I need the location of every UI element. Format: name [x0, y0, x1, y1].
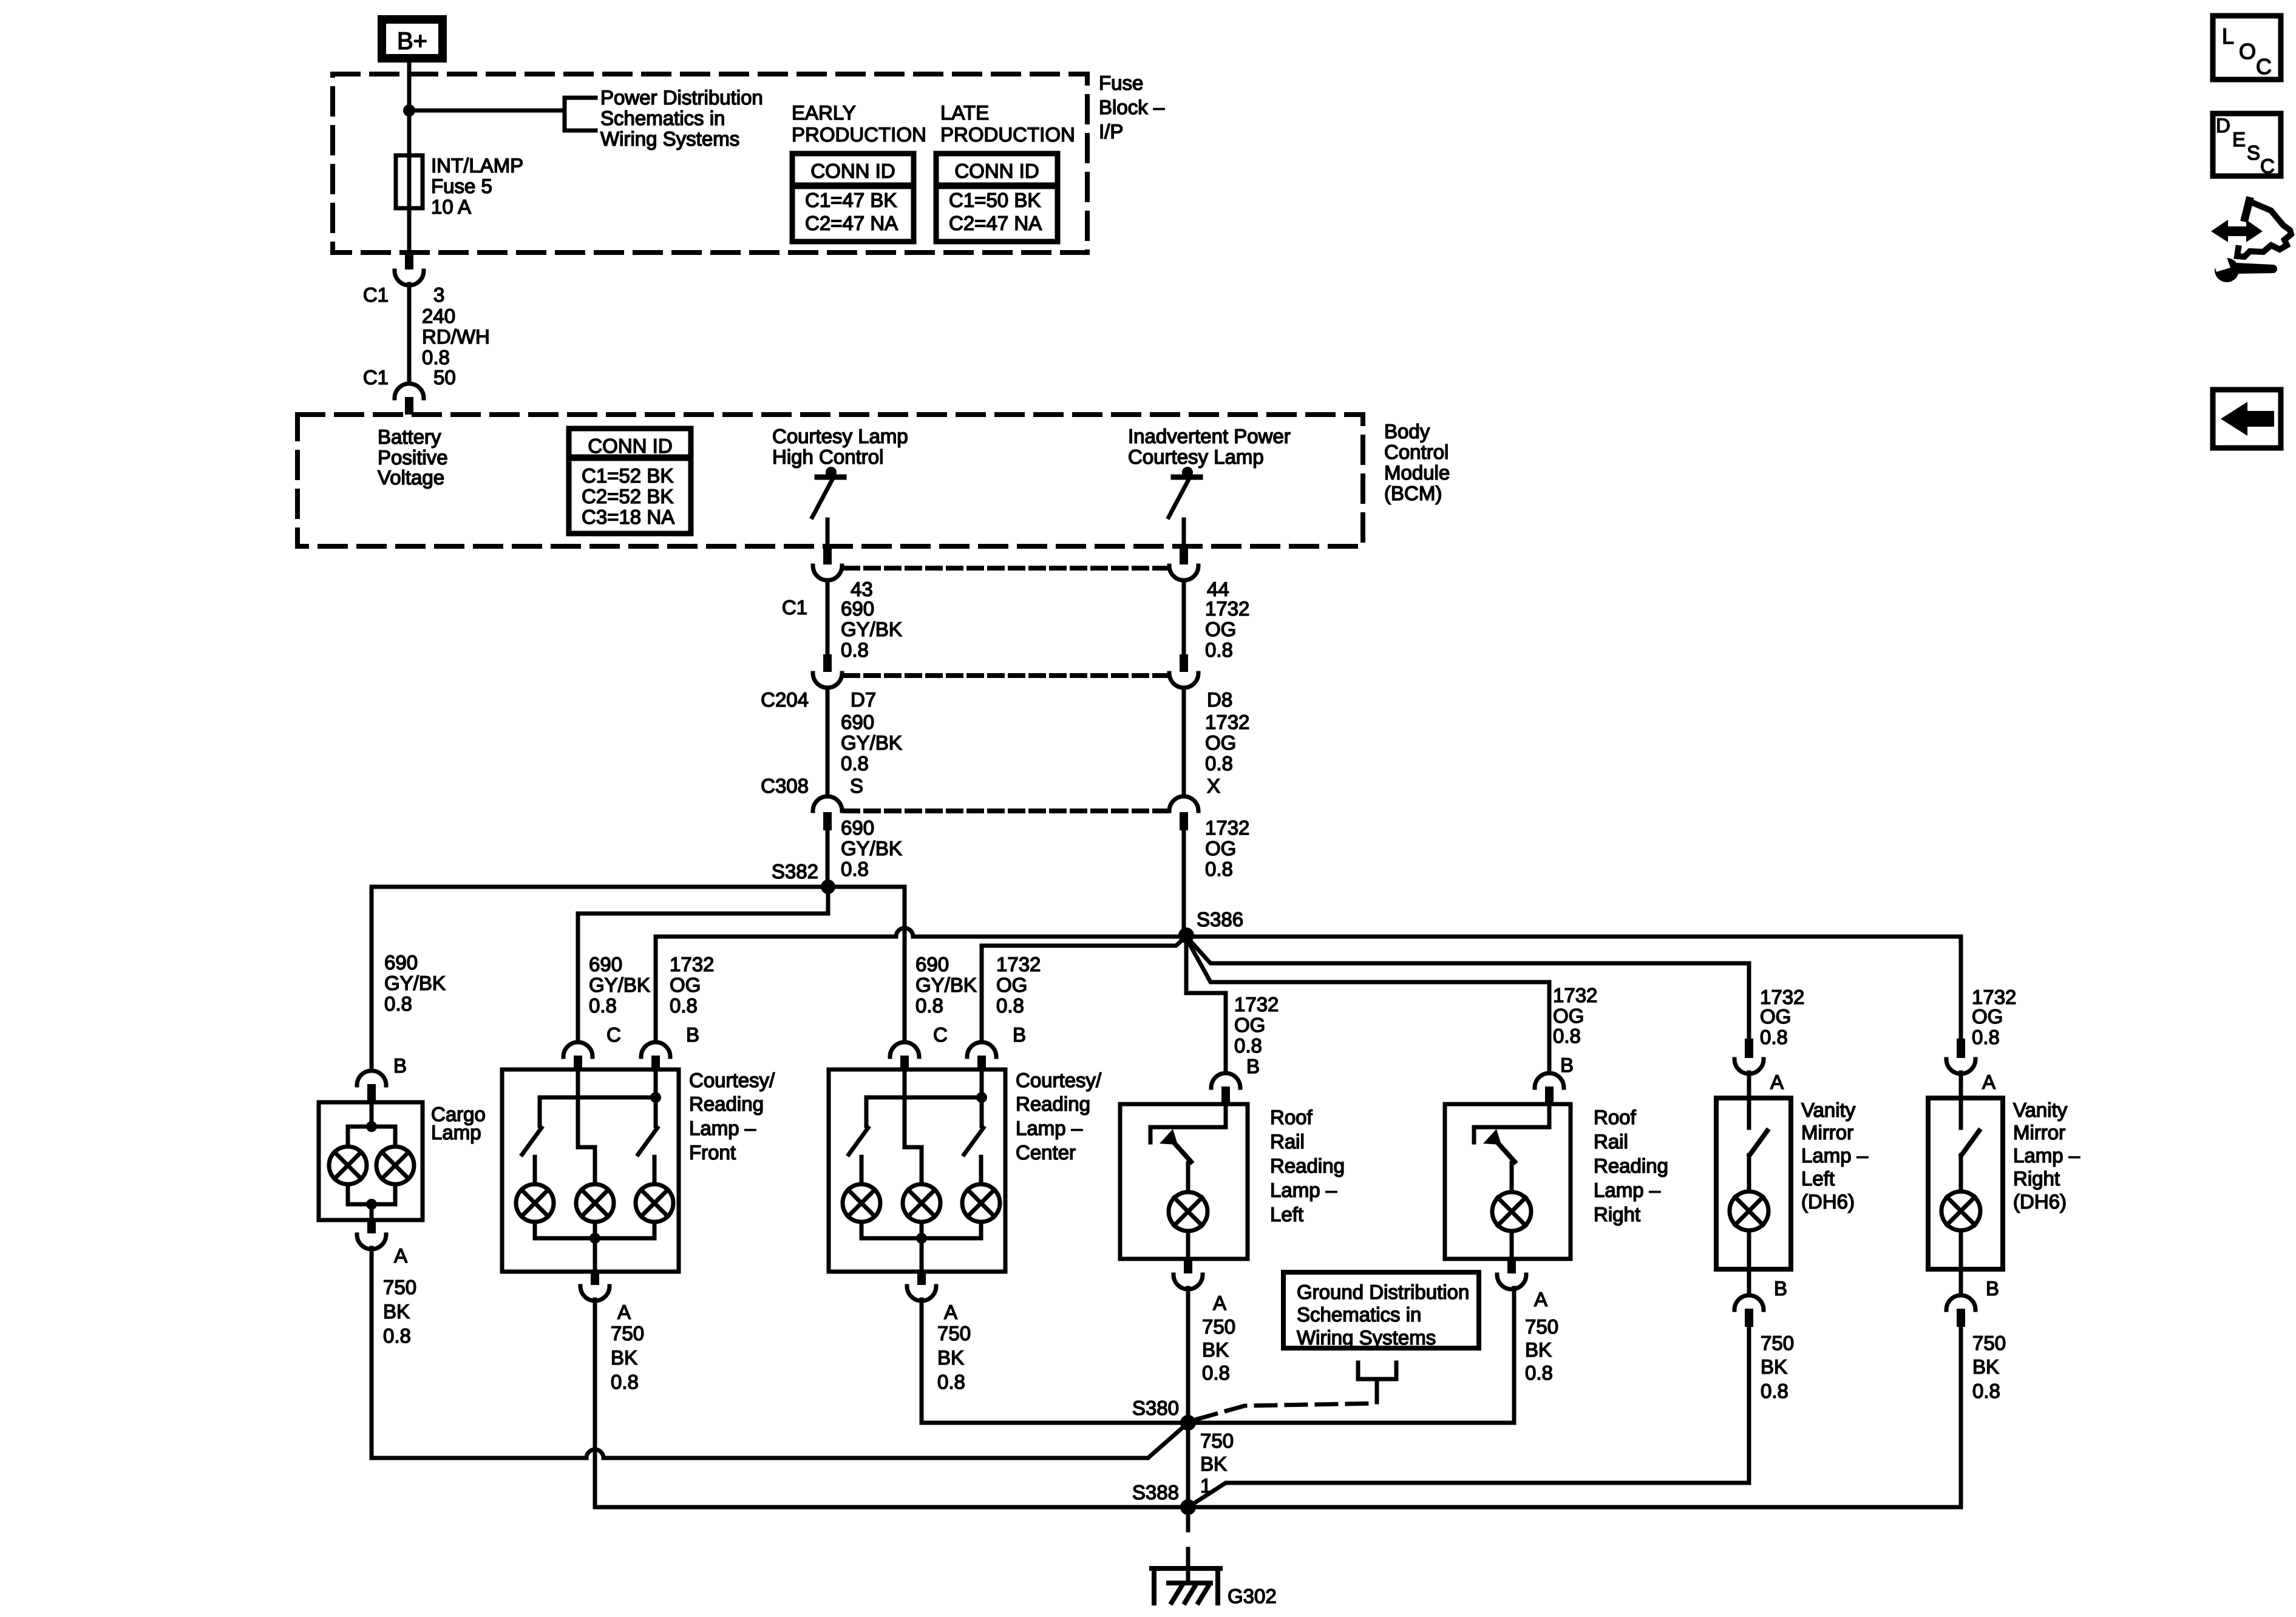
svg-text:690: 690 [841, 711, 874, 733]
svg-text:Mirror: Mirror [2013, 1121, 2065, 1144]
wire to power distribution reference [409, 109, 565, 113]
svg-text:OG: OG [670, 974, 701, 996]
svg-text:0.8: 0.8 [915, 994, 943, 1017]
icon service glyph (hand with wrench) [2211, 201, 2291, 282]
dotted link C204 row [845, 673, 1168, 678]
bulb center middle [903, 1184, 940, 1222]
svg-text:Lamp –: Lamp – [1270, 1179, 1337, 1201]
svg-text:Reading: Reading [689, 1093, 764, 1115]
wire 690 GY/BK (C1 to C204) [826, 580, 830, 654]
vanity mirror lamp left [1716, 1098, 1869, 1269]
svg-text:Inadvertent Power: Inadvertent Power [1128, 425, 1291, 447]
svg-text:D8: D8 [1207, 688, 1232, 711]
roof rail reading lamp right [1445, 1104, 1668, 1259]
switch inadvertent power courtesy lamp [1169, 467, 1200, 547]
bulb center right [962, 1184, 1000, 1222]
connector C308 pin S [761, 775, 863, 830]
label Courtesy Lamp High Control [772, 425, 908, 468]
connector C204 pin D8 [1169, 654, 1232, 711]
svg-text:Right: Right [2013, 1167, 2060, 1190]
svg-text:Left: Left [1270, 1203, 1303, 1225]
svg-text:GY/BK: GY/BK [589, 974, 650, 996]
connector vanity left pin A [1734, 1039, 1784, 1093]
svg-text:GY/BK: GY/BK [841, 618, 902, 640]
svg-text:Lamp –: Lamp – [1801, 1144, 1869, 1167]
svg-text:C: C [933, 1023, 948, 1046]
svg-text:0.8: 0.8 [1202, 1361, 1230, 1384]
connector roof rail left pin A [1173, 1259, 1226, 1314]
bracket ground distribution reference [1358, 1363, 1396, 1402]
svg-text:Lamp –: Lamp – [1016, 1117, 1083, 1139]
wire 1732 OG (X to S386) [1182, 830, 1186, 935]
svg-text:(BCM): (BCM) [1384, 482, 1442, 504]
svg-text:690: 690 [384, 951, 418, 974]
svg-text:1732: 1732 [1205, 711, 1249, 733]
roof rail reading lamp left [1120, 1104, 1345, 1259]
svg-text:240: 240 [422, 305, 455, 327]
svg-text:0.8: 0.8 [589, 994, 617, 1017]
svg-text:Lamp –: Lamp – [689, 1117, 756, 1139]
svg-text:1732: 1732 [1234, 993, 1279, 1015]
svg-text:1732: 1732 [1205, 816, 1249, 839]
svg-text:C1: C1 [363, 366, 389, 388]
svg-text:A: A [944, 1301, 957, 1323]
node S386 [1178, 927, 1194, 943]
svg-text:750: 750 [1972, 1332, 2006, 1354]
svg-text:OG: OG [996, 974, 1027, 996]
wire S386 to vanity mirror left [1187, 938, 1749, 1039]
connector C1 pin 50 (BCM input) [363, 366, 456, 415]
svg-text:BK: BK [1525, 1338, 1552, 1361]
svg-text:Ground Distribution: Ground Distribution [1297, 1281, 1469, 1303]
svg-text:Battery: Battery [378, 425, 441, 448]
svg-text:Left: Left [1801, 1167, 1835, 1190]
svg-text:CONN ID: CONN ID [588, 435, 672, 457]
label Body Control Module (BCM) [1384, 420, 1450, 504]
svg-text:S: S [850, 775, 863, 797]
fuse block I/P dashed box [333, 74, 1087, 253]
svg-text:PRODUCTION: PRODUCTION [792, 123, 926, 146]
node S380 [1180, 1415, 1196, 1431]
bulb front right [636, 1184, 673, 1222]
bulb cargo left [329, 1147, 367, 1184]
label 750 BK 0.8 cargo ground [383, 1276, 416, 1347]
svg-text:GY/BK: GY/BK [915, 974, 977, 996]
bulb front middle [576, 1184, 614, 1222]
svg-text:Control: Control [1384, 441, 1449, 463]
svg-text:C: C [2256, 54, 2272, 79]
svg-text:S: S [2247, 141, 2260, 164]
svg-text:A: A [617, 1301, 631, 1323]
svg-text:0.8: 0.8 [1760, 1026, 1788, 1048]
svg-text:0.8: 0.8 [1972, 1380, 2000, 1402]
svg-text:C1: C1 [363, 283, 389, 306]
svg-text:X: X [1207, 775, 1220, 797]
bulb roof right [1492, 1192, 1531, 1231]
svg-text:A: A [1982, 1071, 1995, 1093]
svg-text:BK: BK [1200, 1453, 1227, 1475]
svg-text:Lamp –: Lamp – [2013, 1144, 2080, 1167]
connector roof rail right pin A [1497, 1259, 1547, 1310]
label 750 BK 0.8 front ground [611, 1322, 644, 1393]
svg-text:0.8: 0.8 [1972, 1026, 2000, 1048]
connector C1 pin 44 [1169, 547, 1229, 600]
svg-text:INT/LAMP: INT/LAMP [431, 154, 523, 177]
svg-text:RD/WH: RD/WH [422, 325, 490, 348]
dotted link C308 row [845, 808, 1168, 813]
svg-text:750: 750 [937, 1322, 971, 1344]
svg-text:B+: B+ [397, 28, 427, 55]
label 1732 OG 0.8 center branch [996, 953, 1041, 1017]
svg-text:Reading: Reading [1270, 1154, 1345, 1177]
svg-text:Rail: Rail [1270, 1130, 1305, 1153]
connector center lamp pin B [967, 1023, 1026, 1071]
svg-text:0.8: 0.8 [611, 1371, 639, 1393]
svg-text:BK: BK [1202, 1338, 1229, 1361]
svg-text:10 A: 10 A [431, 195, 471, 218]
svg-text:LATE: LATE [940, 101, 989, 124]
svg-text:OG: OG [1205, 731, 1236, 754]
wire B+ to fuse 5 [407, 63, 412, 256]
svg-text:Right: Right [1594, 1203, 1640, 1225]
svg-text:750: 750 [1761, 1332, 1794, 1354]
svg-text:L: L [2222, 24, 2234, 49]
table LATE CONN ID [936, 154, 1058, 242]
wire roof left ground [1186, 1288, 1190, 1423]
svg-text:B: B [686, 1023, 699, 1046]
svg-text:Voltage: Voltage [378, 466, 444, 489]
svg-text:3: 3 [433, 283, 444, 306]
connector roof rail left pin B [1211, 1055, 1260, 1104]
svg-text:G302: G302 [1228, 1585, 1277, 1607]
svg-text:Positive: Positive [378, 446, 448, 469]
label 1732 OG 0.8 roof rail right branch [1553, 984, 1597, 1047]
svg-text:Rail: Rail [1594, 1130, 1628, 1153]
svg-text:C2=52 BK: C2=52 BK [582, 485, 673, 507]
label 750 BK 0.8 roof right ground [1525, 1315, 1558, 1384]
svg-text:0.8: 0.8 [841, 858, 869, 880]
svg-text:EARLY: EARLY [792, 101, 856, 124]
ground distribution reference box [1283, 1272, 1479, 1349]
svg-text:GY/BK: GY/BK [384, 972, 446, 994]
icon back arrow [2213, 390, 2281, 448]
svg-text:B: B [1246, 1055, 1260, 1077]
table BCM CONN ID [569, 429, 691, 534]
label Inadvertent Power Courtesy Lamp [1128, 425, 1291, 468]
svg-text:B: B [1560, 1054, 1574, 1076]
wire S386 to roof rail right [1187, 940, 1549, 1073]
svg-text:Body: Body [1384, 420, 1430, 442]
svg-text:A: A [1770, 1071, 1784, 1093]
svg-text:Center: Center [1016, 1141, 1076, 1164]
svg-text:0.8: 0.8 [996, 994, 1024, 1017]
svg-text:C308: C308 [761, 775, 809, 797]
wire 1732 OG (D8 to X) [1182, 688, 1186, 796]
svg-text:Vanity: Vanity [1801, 1099, 1856, 1121]
svg-text:S386: S386 [1197, 908, 1243, 931]
svg-text:BK: BK [611, 1346, 637, 1369]
vanity mirror lamp right [1928, 1098, 2080, 1269]
svg-text:Roof: Roof [1594, 1106, 1637, 1128]
label 750 BK 1 [1200, 1429, 1234, 1497]
label 750 BK 0.8 vanity right ground [1972, 1332, 2006, 1402]
wire 1732 OG center lamp B to S386 [982, 937, 1186, 1042]
label 1732 OG 0.8 vanity left branch [1760, 986, 1804, 1048]
BCM dashed box [297, 415, 1363, 546]
svg-text:C2=47 NA: C2=47 NA [805, 212, 898, 234]
label 750 BK 0.8 vanity left ground [1761, 1332, 1794, 1402]
svg-text:0.8: 0.8 [937, 1371, 965, 1393]
svg-text:0.8: 0.8 [384, 992, 412, 1015]
svg-text:690: 690 [915, 953, 949, 975]
wire vanity right ground [1959, 1327, 1963, 1507]
connector C308 pin X [1169, 775, 1220, 830]
svg-text:Courtesy/: Courtesy/ [1016, 1069, 1102, 1091]
svg-text:B: B [1774, 1277, 1787, 1300]
svg-text:Courtesy/: Courtesy/ [689, 1069, 775, 1091]
label Power Distribution Schematics in Wiring Systems [600, 86, 763, 150]
svg-text:690: 690 [589, 953, 622, 975]
svg-text:(DH6): (DH6) [2013, 1190, 2067, 1213]
svg-text:0.8: 0.8 [670, 994, 698, 1017]
connector front lamp pin C [563, 1023, 621, 1071]
svg-text:C3=18 NA: C3=18 NA [582, 506, 674, 528]
label EARLY PRODUCTION [792, 101, 926, 146]
wire 1732 OG front lamp B to S386 (with hop) [656, 928, 1186, 1042]
wire front ground to S388 bus [593, 1300, 597, 1507]
svg-text:High Control: High Control [772, 446, 883, 468]
svg-text:OG: OG [1205, 618, 1236, 640]
svg-text:C1=47 BK: C1=47 BK [805, 189, 897, 211]
svg-text:Lamp: Lamp [431, 1121, 481, 1144]
label Battery Positive Voltage [378, 425, 448, 489]
wire 690 GY/BK (C308 to S382) [826, 830, 830, 887]
svg-text:B: B [1013, 1023, 1026, 1046]
svg-text:BK: BK [1761, 1355, 1787, 1378]
wire S380 to S388 750 BK 1 [1186, 1423, 1190, 1507]
svg-text:Fuse: Fuse [1099, 72, 1143, 94]
label 1732 OG 0.8 vanity right branch [1972, 986, 2016, 1048]
svg-text:1732: 1732 [1553, 984, 1597, 1006]
svg-text:0.8: 0.8 [1525, 1361, 1553, 1384]
svg-text:PRODUCTION: PRODUCTION [940, 123, 1075, 146]
svg-text:C1: C1 [782, 596, 807, 619]
svg-text:OG: OG [1972, 1005, 2003, 1028]
svg-text:Schematics in: Schematics in [600, 107, 725, 129]
svg-text:0.8: 0.8 [1761, 1380, 1788, 1402]
svg-text:50: 50 [433, 366, 456, 388]
svg-text:B: B [393, 1054, 407, 1077]
svg-text:Front: Front [689, 1141, 736, 1164]
connector roof rail right pin B [1535, 1054, 1574, 1104]
svg-text:C1=52 BK: C1=52 BK [582, 464, 673, 487]
power symbol B+ [382, 19, 443, 58]
connector cargo lamp pin B [357, 1054, 407, 1102]
svg-text:OG: OG [1205, 837, 1236, 859]
wire vanity left pin A to box [1747, 1073, 1751, 1098]
svg-text:I/P: I/P [1099, 120, 1123, 143]
svg-text:Wiring Systems: Wiring Systems [1297, 1326, 1436, 1349]
connector vanity right pin B [1946, 1269, 1999, 1327]
connector C1 pin 3 (fuse block output) [363, 253, 445, 306]
connector C204 pin D7 [761, 654, 876, 711]
svg-text:Module: Module [1384, 461, 1450, 484]
svg-text:A: A [1534, 1288, 1547, 1310]
wire 1732 OG (44 to D8) [1182, 580, 1186, 654]
bulb center left [843, 1184, 880, 1222]
svg-text:1: 1 [1200, 1474, 1211, 1497]
connector C1 pin 43 [782, 547, 873, 619]
table EARLY CONN ID [792, 154, 914, 242]
label 690 GY/BK 0.8 cargo branch [384, 951, 446, 1015]
svg-text:0.8: 0.8 [422, 346, 450, 368]
svg-text:750: 750 [1202, 1315, 1235, 1338]
svg-text:S380: S380 [1132, 1397, 1179, 1419]
svg-text:Block –: Block – [1099, 96, 1165, 118]
svg-text:BK: BK [937, 1346, 964, 1369]
wire 240 RD/WH 0.8 [407, 284, 412, 383]
svg-text:B: B [1986, 1277, 1999, 1300]
label 690 GY/BK 0.8 center branch [915, 953, 977, 1017]
connector cargo lamp pin A [357, 1220, 407, 1267]
svg-text:O: O [2239, 39, 2256, 64]
bulb cargo right [376, 1147, 414, 1184]
label 750 BK 0.8 roof left ground [1202, 1315, 1235, 1384]
svg-text:OG: OG [1553, 1005, 1584, 1027]
wire S386 to vanity mirror right [1186, 937, 1961, 1039]
wire center ground to S380 [920, 1300, 924, 1423]
wire cargo ground to S380 (hop over front ground) [372, 1248, 1188, 1458]
node junction at fuse feed [403, 104, 415, 117]
svg-text:0.8: 0.8 [1205, 639, 1233, 661]
svg-text:C: C [606, 1023, 621, 1046]
svg-text:Courtesy Lamp: Courtesy Lamp [772, 425, 908, 447]
connector vanity right pin A [1946, 1039, 1995, 1093]
wire vanity right pin A to box [1959, 1073, 1963, 1098]
node S388 [1180, 1499, 1196, 1515]
svg-text:690: 690 [841, 597, 874, 620]
label 1732 OG 0.8 front branch [670, 953, 714, 1017]
svg-text:Fuse 5: Fuse 5 [431, 175, 492, 197]
wire vanity left ground to S388 [1188, 1327, 1749, 1507]
svg-text:Vanity: Vanity [2013, 1099, 2068, 1121]
svg-text:D7: D7 [851, 688, 876, 711]
svg-text:Lamp –: Lamp – [1594, 1179, 1661, 1201]
svg-text:0.8: 0.8 [1205, 858, 1233, 880]
svg-text:0.8: 0.8 [383, 1324, 411, 1347]
bulb roof left [1169, 1192, 1207, 1231]
ground G302 [1152, 1568, 1277, 1607]
courtesy/reading lamp center [829, 1069, 1102, 1272]
svg-text:GY/BK: GY/BK [841, 731, 902, 754]
svg-text:D: D [2216, 114, 2230, 137]
switch courtesy lamp high control [812, 467, 844, 547]
bulb vanity right [1941, 1192, 1980, 1230]
cargo lamp [319, 1102, 486, 1220]
node S382 [821, 880, 835, 894]
svg-text:OG: OG [1760, 1005, 1791, 1028]
svg-text:A: A [394, 1244, 407, 1267]
svg-text:0.8: 0.8 [841, 752, 869, 775]
icon LOC [2213, 16, 2281, 80]
svg-text:750: 750 [1525, 1315, 1558, 1338]
svg-text:750: 750 [611, 1322, 644, 1344]
svg-text:C204: C204 [761, 688, 809, 711]
svg-text:GY/BK: GY/BK [841, 837, 902, 859]
svg-text:C1=50 BK: C1=50 BK [949, 189, 1041, 211]
svg-text:0.8: 0.8 [841, 639, 869, 661]
svg-text:Reading: Reading [1016, 1093, 1090, 1115]
svg-text:S388: S388 [1132, 1481, 1179, 1503]
wire S382 drop to front lamp C [578, 887, 828, 1042]
wire ground bus through S380 [922, 1421, 1514, 1425]
svg-text:750: 750 [1200, 1429, 1234, 1452]
wire S388 ground bus [595, 1505, 1961, 1510]
dotted link C1 row [845, 566, 1168, 571]
svg-text:CONN ID: CONN ID [954, 160, 1039, 182]
svg-text:0.8: 0.8 [1205, 752, 1233, 775]
svg-text:750: 750 [383, 1276, 416, 1298]
label 750 BK 0.8 center ground [937, 1322, 971, 1393]
bulb vanity left [1730, 1192, 1768, 1230]
wire S386 to roof rail left [1186, 935, 1226, 1073]
connector center lamp pin C [890, 1023, 948, 1071]
svg-text:0.8: 0.8 [1234, 1034, 1262, 1057]
connector center lamp pin A [907, 1272, 957, 1323]
connector front lamp pin A [580, 1272, 631, 1323]
bulb front left [516, 1184, 554, 1222]
label 690 GY/BK 0.8 front branch [589, 953, 650, 1017]
bracket power distribution reference [565, 98, 596, 131]
label 1732 OG 0.8 roof rail left branch [1234, 993, 1279, 1057]
svg-text:C2=47 NA: C2=47 NA [949, 212, 1042, 234]
svg-text:E: E [2232, 128, 2246, 151]
svg-text:0.8: 0.8 [1553, 1025, 1581, 1047]
dashed link S380 to ground reference [1197, 1403, 1377, 1419]
svg-text:690: 690 [841, 816, 874, 839]
connector front lamp pin B [641, 1023, 699, 1071]
wire roof right ground [1512, 1288, 1517, 1423]
svg-text:Roof: Roof [1270, 1106, 1313, 1128]
svg-text:Reading: Reading [1594, 1154, 1668, 1177]
svg-text:BK: BK [1972, 1355, 1999, 1378]
icon DESC [2213, 114, 2281, 177]
wire S382 bus to cargo and center lamp [372, 887, 905, 1071]
svg-text:OG: OG [1234, 1014, 1265, 1036]
courtesy/reading lamp front [502, 1069, 775, 1272]
svg-text:A: A [1213, 1292, 1226, 1314]
label Fuse Block I/P [1099, 72, 1165, 143]
svg-text:Courtesy Lamp: Courtesy Lamp [1128, 446, 1264, 468]
svg-text:Mirror: Mirror [1801, 1121, 1853, 1144]
svg-text:Power Distribution: Power Distribution [600, 86, 763, 109]
fuse F5 INT/LAMP 10A [396, 155, 423, 208]
svg-text:Wiring Systems: Wiring Systems [600, 127, 739, 150]
label LATE PRODUCTION [940, 101, 1075, 146]
svg-text:S382: S382 [772, 860, 818, 883]
svg-text:CONN ID: CONN ID [810, 160, 895, 182]
svg-text:1732: 1732 [670, 953, 714, 975]
svg-text:Schematics in: Schematics in [1297, 1303, 1421, 1326]
svg-text:(DH6): (DH6) [1801, 1190, 1855, 1213]
svg-text:1732: 1732 [996, 953, 1041, 975]
wire S388 to G302 [1186, 1507, 1190, 1582]
svg-text:1732: 1732 [1205, 597, 1249, 620]
wire 690 GY/BK (C204 to C308) [826, 688, 830, 796]
svg-text:C: C [2260, 155, 2275, 177]
svg-text:BK: BK [383, 1300, 410, 1323]
connector vanity left pin B [1734, 1269, 1787, 1327]
